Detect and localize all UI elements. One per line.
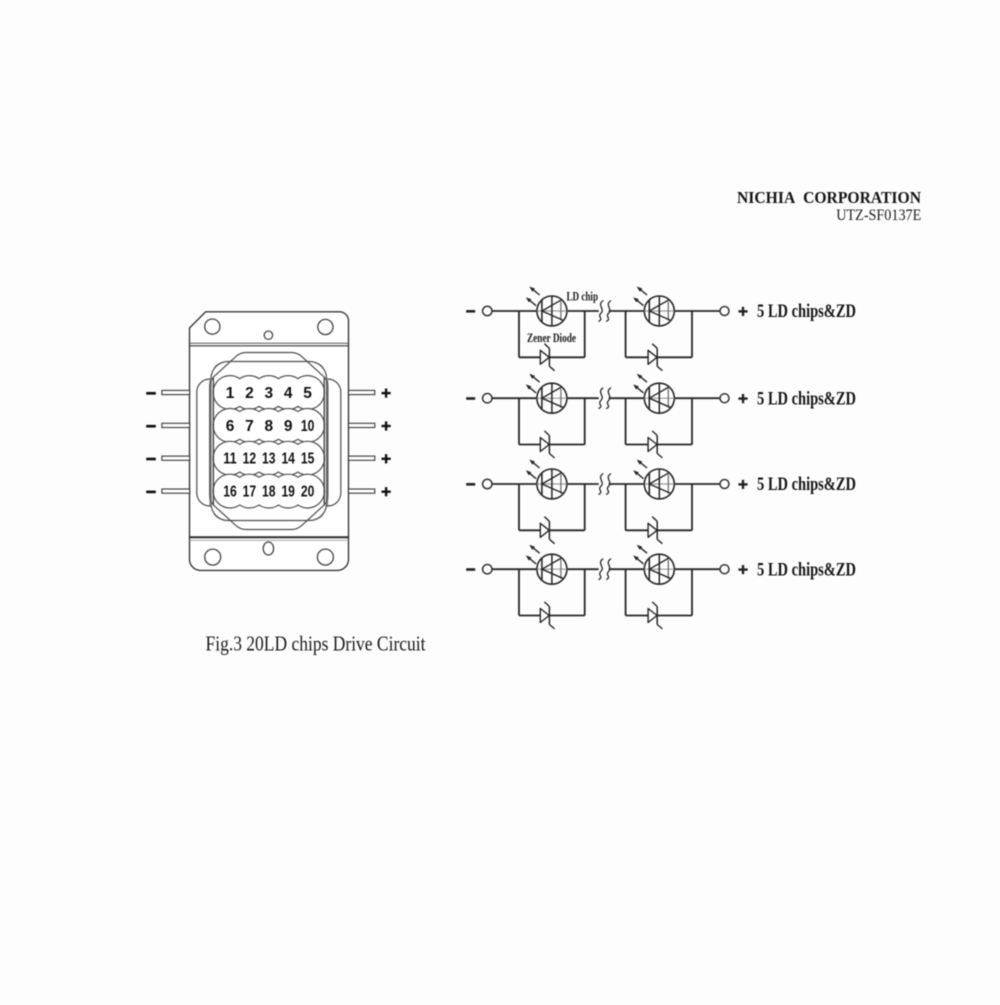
svg-text:18: 18	[262, 484, 276, 501]
svg-text:5 LD chips&ZD: 5 LD chips&ZD	[757, 388, 856, 409]
svg-text:5 LD chips&ZD: 5 LD chips&ZD	[757, 474, 856, 495]
svg-text:LD chip: LD chip	[567, 288, 599, 303]
svg-text:5 LD chips&ZD: 5 LD chips&ZD	[757, 301, 856, 322]
svg-text:3: 3	[264, 385, 273, 402]
svg-text:14: 14	[281, 451, 295, 468]
svg-text:11: 11	[223, 451, 237, 468]
svg-text:16: 16	[223, 484, 237, 501]
svg-text:Zener Diode: Zener Diode	[527, 330, 576, 345]
svg-text:19: 19	[281, 484, 295, 501]
svg-text:4: 4	[284, 385, 293, 402]
svg-text:20: 20	[301, 484, 315, 501]
svg-text:1: 1	[226, 385, 235, 402]
svg-text:NICHIA CORPORATION: NICHIA CORPORATION	[737, 188, 922, 207]
svg-text:UTZ-SF0137E: UTZ-SF0137E	[836, 207, 921, 224]
svg-text:Fig.3 20LD chips Drive Circuit: Fig.3 20LD chips Drive Circuit	[206, 631, 426, 655]
svg-text:10: 10	[301, 418, 315, 435]
svg-text:7: 7	[245, 418, 254, 435]
svg-text:15: 15	[301, 451, 315, 468]
svg-text:9: 9	[284, 418, 293, 435]
svg-text:12: 12	[243, 451, 257, 468]
svg-text:5: 5	[303, 385, 312, 402]
svg-text:2: 2	[245, 385, 254, 402]
svg-text:13: 13	[262, 451, 276, 468]
svg-text:5 LD chips&ZD: 5 LD chips&ZD	[757, 559, 856, 580]
svg-text:8: 8	[264, 418, 273, 435]
svg-text:17: 17	[243, 484, 257, 501]
svg-text:6: 6	[226, 418, 235, 435]
